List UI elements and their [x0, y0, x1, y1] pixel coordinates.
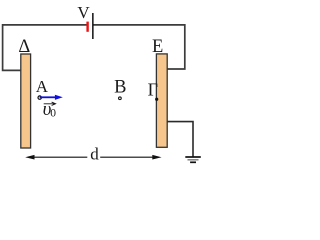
svg-text:Δ: Δ: [18, 37, 30, 57]
svg-text:V: V: [77, 3, 90, 22]
svg-text:Γ: Γ: [148, 80, 158, 100]
wire top-right from battery to right plate: [93, 25, 184, 69]
point B (small circle): [119, 97, 122, 100]
point A (small circle): [38, 96, 41, 99]
vector arrow over v0 label: [44, 102, 56, 105]
left plate Δ: [21, 54, 31, 148]
dimension d double arrow: [25, 155, 161, 160]
ground symbol: [185, 157, 201, 162]
svg-text:d: d: [90, 145, 99, 164]
wire right plate to ground: [167, 122, 193, 157]
svg-text:A: A: [36, 77, 49, 96]
battery negative terminal (red short bar): [86, 22, 88, 32]
battery positive terminal (tall black bar): [92, 13, 94, 39]
right plate E: [156, 54, 167, 147]
point Γ (dot on plate): [155, 98, 158, 101]
svg-text:0: 0: [50, 107, 56, 119]
svg-text:E: E: [152, 37, 163, 57]
velocity vector v0 (blue arrow): [40, 95, 63, 100]
wire top-left from battery to left corner: [3, 25, 87, 71]
svg-text:B: B: [114, 78, 126, 98]
